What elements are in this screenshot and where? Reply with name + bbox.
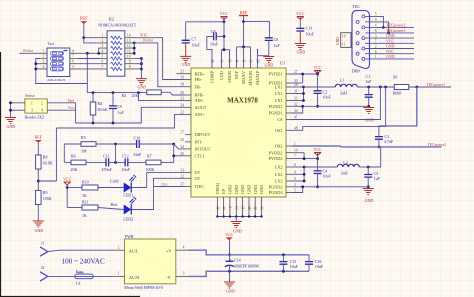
- svg-text:1: 1: [43, 49, 45, 53]
- wire switch common down to node A: [86, 53, 88, 92]
- svg-text:PGND2: PGND2: [269, 184, 283, 189]
- wire jog to R2 pin 3: [98, 48, 101, 53]
- pin 15 INT- stub: [185, 141, 191, 143]
- wire C5 to PGND2 ground: [367, 177, 369, 187]
- svg-text:PVDD2: PVDD2: [269, 150, 283, 155]
- svg-text:1A: 1A: [76, 281, 81, 286]
- wire R1 to TECpower1: [409, 86, 451, 88]
- pin 20 BFB- stub: [185, 94, 191, 96]
- svg-text:DB9: DB9: [352, 68, 360, 73]
- pin 27 PVDD1 stub: [286, 73, 292, 75]
- svg-text:105K: 105K: [43, 196, 52, 201]
- svg-text:5: 5: [102, 55, 104, 59]
- wire LED2 to OT pin 12: [131, 178, 185, 209]
- svg-text:42: 42: [253, 206, 257, 210]
- pin 21 BFB+ stub: [176, 73, 191, 75]
- wire C3 to TECpower2 row: [378, 139, 380, 147]
- capacitor C11 470nF: [86, 161, 106, 163]
- wire DB9 pin3 GND: [365, 37, 414, 39]
- pin 22 AIN+ stub: [185, 114, 191, 116]
- svg-text:36: 36: [215, 206, 219, 210]
- svg-text:2ms: 2ms: [161, 182, 168, 187]
- svg-text:Hot: Hot: [111, 202, 118, 207]
- wire header pin4 Vntc down to R4 C9 row: [47, 109, 75, 111]
- svg-text:1uF: 1uF: [374, 176, 381, 181]
- R2 element zigzag row 6: [111, 62, 123, 65]
- svg-text:TECpower2: TECpower2: [386, 22, 406, 27]
- power module PS1 PWR box: [125, 239, 176, 284]
- connector J3 Header 2X2 Sense: [25, 99, 47, 113]
- wire C14 to ground: [229, 265, 231, 271]
- switch element 1: [51, 51, 64, 55]
- svg-text:R6: R6: [71, 154, 76, 159]
- svg-text:1: 1: [118, 272, 120, 276]
- svg-text:FREQ: FREQ: [215, 182, 220, 194]
- wire C8 to ground / MAXIP pin 39: [268, 40, 270, 55]
- pin 9 LX2 stub: [286, 180, 292, 182]
- svg-text:VCC: VCC: [313, 65, 322, 70]
- svg-text:GND: GND: [265, 63, 274, 68]
- DIP switch S1 A6S-4102-H body: [47, 48, 70, 77]
- svg-text:INT-: INT-: [195, 140, 204, 145]
- wire header pins 1 3 to ground: [11, 103, 25, 117]
- svg-text:LX1: LX1: [275, 98, 283, 103]
- wire DB9 pin9 to pin8: [365, 22, 389, 33]
- wire R3 to BFB- pin 20: [161, 92, 185, 95]
- PWR pin 4: [176, 249, 188, 251]
- capacitor C1 1uF: [368, 87, 370, 95]
- svg-text:VCC: VCC: [225, 232, 234, 237]
- svg-text:7: 7: [102, 65, 104, 69]
- wire LX1 pins 28 31 33 tied: [292, 86, 304, 88]
- R2 element zigzag row 1: [111, 36, 123, 39]
- DB9 pin 8: [356, 31, 359, 34]
- svg-text:AOUT: AOUT: [195, 105, 207, 110]
- svg-text:470nF: 470nF: [102, 167, 113, 172]
- capacitor C15 10uF: [282, 255, 284, 262]
- resistor R11 1K: [82, 205, 98, 210]
- DB9 pin 1: [362, 57, 365, 60]
- svg-text:C8: C8: [274, 37, 279, 42]
- svg-text:VCC: VCC: [63, 177, 72, 182]
- svg-text:2: 2: [118, 246, 120, 250]
- svg-text:Vntc: Vntc: [68, 105, 76, 110]
- svg-text:PVDD1: PVDD1: [269, 72, 283, 77]
- svg-text:13: 13: [234, 206, 238, 210]
- wire TECpower2 to L2: [368, 147, 381, 167]
- svg-text:24: 24: [180, 103, 184, 107]
- svg-text:GND: GND: [247, 185, 252, 194]
- svg-text:DIFOUT: DIFOUT: [195, 132, 211, 137]
- ground below C13: [299, 31, 301, 44]
- wire 10shut to switch pin 1: [19, 52, 40, 54]
- svg-text:6: 6: [102, 60, 104, 64]
- svg-text:6: 6: [294, 163, 296, 167]
- wire REF port to REF bus and C8: [243, 16, 245, 22]
- svg-text:10nF: 10nF: [192, 43, 201, 48]
- wire R2 pin14 to FB+ (NTC net): [134, 38, 185, 80]
- R2 element zigzag row 5: [111, 57, 123, 60]
- svg-text:32: 32: [294, 102, 298, 106]
- pin 47 CS stub: [286, 119, 292, 121]
- svg-text:3: 3: [294, 183, 296, 187]
- capacitor C5 1uF: [367, 167, 369, 175]
- pin 5 PGND2 stub: [286, 192, 292, 194]
- capacitor C6: [214, 32, 217, 40]
- svg-text:R1: R1: [393, 75, 398, 80]
- svg-text:3: 3: [43, 60, 45, 64]
- wire PGND1 pins 32 34 to ground: [292, 105, 369, 107]
- ground below R2: [136, 79, 147, 85]
- ground below C1: [363, 108, 374, 114]
- svg-text:15: 15: [180, 138, 184, 142]
- pin 18 FB- stub: [185, 86, 191, 88]
- wire R7 to CTLI vertical: [161, 161, 174, 163]
- pin 33 LX1 stub: [286, 100, 292, 102]
- wire PVDD2 pins 10 7 tied: [292, 152, 304, 154]
- svg-text:REF: REF: [234, 70, 239, 78]
- DB9 pin 2: [362, 47, 365, 50]
- svg-text:PGND1: PGND1: [269, 104, 283, 109]
- wire CS pin 47 sense: [292, 87, 380, 120]
- wire DB9 pin6 NTC: [365, 53, 414, 55]
- svg-text:OT: OT: [195, 176, 201, 181]
- svg-text:20K: 20K: [132, 93, 139, 98]
- svg-text:J2: J2: [41, 265, 45, 270]
- pin 24 AOUT stub: [185, 106, 191, 108]
- svg-text:Tset: Tset: [68, 98, 75, 103]
- svg-text:R068: R068: [393, 91, 402, 96]
- svg-text:AC/N: AC/N: [129, 275, 140, 280]
- svg-text:9: 9: [129, 60, 131, 64]
- ground below R9: [37, 205, 39, 221]
- pin 13 GND stub: [235, 197, 237, 217]
- wire REF to R2 pins 1 2: [83, 24, 85, 38]
- ground below C14: [224, 282, 235, 288]
- svg-text:28: 28: [294, 83, 298, 87]
- wire VCC to R10 R11: [66, 185, 68, 208]
- svg-text:REF: REF: [35, 135, 43, 140]
- svg-text:PWR: PWR: [125, 234, 134, 239]
- DB9 mounting pins 10 11 box: [341, 33, 351, 48]
- svg-text:1K: 1K: [82, 193, 87, 198]
- svg-text:100K: 100K: [146, 167, 155, 172]
- svg-text:LX2: LX2: [275, 179, 283, 184]
- wire C6 right plate to VDD line: [216, 35, 224, 37]
- wire -V row: [188, 271, 309, 276]
- wire AIN- pin 23: [139, 93, 186, 101]
- op-amp controller U1 MAX1978 chip body: [191, 68, 286, 197]
- svg-text:14: 14: [127, 34, 131, 38]
- svg-text:OS1: OS1: [275, 128, 283, 133]
- svg-text:A6S-4102-H: A6S-4102-H: [47, 78, 65, 82]
- svg-text:+V: +V: [166, 249, 172, 254]
- svg-text:GND: GND: [35, 228, 44, 233]
- power port VCC top: [221, 17, 228, 20]
- capacitor C8: [265, 38, 273, 41]
- svg-text:VDD: VDD: [219, 71, 224, 80]
- resistor network R2 NOMCA14031002AT5 body: [107, 31, 125, 76]
- wire OS1 pin 48 sense: [292, 87, 386, 130]
- svg-text:ITEC: ITEC: [195, 184, 205, 189]
- svg-text:C12: C12: [122, 154, 129, 159]
- pin 42 GND stub: [254, 197, 256, 217]
- pin 12 OT stub: [185, 177, 191, 179]
- LED2: [98, 208, 124, 210]
- svg-text:1M: 1M: [81, 149, 87, 154]
- svg-text:R3: R3: [122, 93, 127, 98]
- svg-text:100 ~ 240VAC: 100 ~ 240VAC: [62, 257, 105, 265]
- wire OS2 pin 1 to TECpower2: [292, 145, 442, 148]
- svg-text:U1: U1: [280, 61, 285, 66]
- svg-text:SHDN: SHDN: [227, 71, 232, 83]
- svg-text:GND: GND: [234, 185, 239, 194]
- wire AIN+ pin 22 route: [56, 115, 185, 128]
- svg-text:MAXV: MAXV: [241, 70, 246, 84]
- svg-text:10shut: 10shut: [142, 38, 154, 43]
- svg-text:3uH: 3uH: [340, 91, 347, 96]
- ground symbol below chip: [231, 222, 242, 228]
- wire DB9 pin5 to pin4: [365, 16, 383, 27]
- svg-text:43: 43: [260, 206, 264, 210]
- DB9 pin 3: [362, 37, 365, 40]
- svg-text:AIN+: AIN+: [195, 112, 206, 117]
- svg-text:L1: L1: [340, 78, 345, 83]
- svg-text:5: 5: [294, 189, 296, 193]
- svg-text:PGND1: PGND1: [269, 111, 283, 116]
- switch element 3: [51, 62, 64, 66]
- capacitor C7: [185, 22, 187, 41]
- sheet border: [1, 52, 141, 297]
- svg-text:VCC: VCC: [220, 11, 229, 16]
- power port VCC left: [64, 182, 71, 185]
- svg-text:69.8K: 69.8K: [43, 161, 53, 166]
- wire FREQ EP GND pins to ground: [235, 217, 237, 221]
- capacitor C2 10uF: [317, 74, 319, 91]
- wire LED1 to UT pin 13: [131, 173, 185, 188]
- resistor R7 100K: [128, 161, 146, 163]
- svg-text:R10: R10: [82, 180, 89, 185]
- svg-text:L2: L2: [343, 160, 348, 165]
- svg-text:13: 13: [180, 169, 184, 173]
- svg-text:INTOUT: INTOUT: [195, 147, 211, 152]
- svg-text:LX1: LX1: [275, 85, 283, 90]
- wire PVDD1 pins 27 30 tied: [292, 73, 318, 75]
- svg-text:MAX1978: MAX1978: [227, 96, 258, 104]
- svg-text:TECpower1: TECpower1: [427, 83, 446, 87]
- svg-text:1uF: 1uF: [365, 79, 372, 84]
- svg-text:TEC: TEC: [352, 4, 360, 9]
- capacitor C3 4.7uF: [378, 126, 380, 137]
- svg-text:10: 10: [127, 55, 131, 59]
- wire TECpower1 to C3: [379, 87, 417, 126]
- svg-text:GND: GND: [259, 185, 264, 194]
- svg-text:47: 47: [294, 116, 298, 120]
- wire C4 to PGND2 row: [317, 174, 319, 187]
- svg-text:27: 27: [294, 70, 298, 74]
- svg-text:2: 2: [228, 206, 232, 208]
- wire switch pins 2 3 4 common: [36, 59, 88, 84]
- wire VCC to R11: [67, 207, 82, 209]
- wire DB9 pin7 VCC: [365, 42, 414, 44]
- svg-text:UT: UT: [195, 170, 201, 175]
- svg-text:GND: GND: [6, 124, 15, 129]
- svg-text:10uF: 10uF: [323, 174, 332, 179]
- svg-text:COMP: COMP: [210, 70, 215, 83]
- ground below C7: [185, 43, 187, 57]
- svg-text:3: 3: [31, 109, 33, 113]
- svg-text:14: 14: [180, 145, 184, 149]
- svg-text:R4: R4: [98, 101, 103, 106]
- power port REF top: [239, 15, 248, 17]
- svg-text:LX2: LX2: [275, 172, 283, 177]
- svg-text:Header 2X2: Header 2X2: [25, 114, 44, 119]
- wire LX2 to L2: [304, 166, 337, 168]
- svg-text:VCC: VCC: [296, 11, 305, 16]
- svg-text:7: 7: [72, 55, 74, 59]
- pin 23 AIN- stub: [185, 100, 191, 102]
- svg-text:GND: GND: [336, 37, 340, 45]
- LED1: [98, 187, 124, 189]
- wire comp loop top left: [64, 143, 81, 145]
- svg-text:LED1: LED1: [123, 193, 133, 198]
- svg-text:C10: C10: [134, 136, 141, 141]
- svg-text:80.6K: 80.6K: [98, 107, 108, 112]
- svg-text:REF: REF: [240, 10, 248, 15]
- svg-text:GND: GND: [365, 198, 374, 203]
- svg-text:12: 12: [127, 44, 131, 48]
- power port VCC lower right: [314, 153, 321, 156]
- svg-text:10nF: 10nF: [122, 167, 131, 172]
- pin 2 GND stub: [229, 197, 231, 217]
- svg-text:NOMCA14031002AT5: NOMCA14031002AT5: [98, 23, 136, 28]
- svg-text:13: 13: [127, 39, 131, 43]
- pin 10 PVDD2 stub: [286, 152, 292, 154]
- capacitor C4 10uF: [317, 159, 319, 171]
- power port VCC right: [314, 71, 321, 74]
- svg-text:10shut: 10shut: [22, 48, 34, 53]
- svg-text:37: 37: [180, 183, 184, 187]
- svg-text:C14: C14: [234, 258, 241, 263]
- svg-text:10: 10: [294, 149, 298, 153]
- pin 25 GND stub: [248, 197, 250, 217]
- svg-text:17: 17: [180, 131, 184, 135]
- svg-text:8: 8: [129, 65, 131, 69]
- svg-text:GND: GND: [240, 185, 245, 194]
- REF bus joining pins 46 41 40: [237, 46, 251, 48]
- svg-text:21: 21: [241, 206, 245, 210]
- svg-text:48: 48: [294, 126, 298, 130]
- wire fuse to AC/N: [93, 275, 112, 277]
- svg-text:LX1: LX1: [275, 91, 283, 96]
- svg-text:MAXIP: MAXIP: [255, 70, 260, 84]
- svg-text:2: 2: [43, 55, 45, 59]
- svg-text:Tact: Tact: [48, 41, 56, 46]
- svg-text:AIN-: AIN-: [195, 98, 205, 103]
- svg-text:19: 19: [180, 76, 184, 80]
- svg-text:CTLI: CTLI: [195, 153, 205, 158]
- wire DB9 pin8 TECpower1: [365, 32, 414, 34]
- svg-text:49: 49: [222, 206, 226, 210]
- pin 21 GND stub: [242, 197, 244, 217]
- wire C1 to PGND ground: [368, 97, 370, 106]
- svg-text:10uF: 10uF: [315, 264, 324, 269]
- wire C7 to VCC: [186, 21, 224, 23]
- svg-text:R7: R7: [147, 154, 152, 159]
- svg-text:R11: R11: [82, 200, 89, 205]
- inductor L2 3uH: [337, 164, 359, 167]
- svg-text:6: 6: [72, 60, 74, 64]
- svg-text:10uF: 10uF: [290, 264, 299, 269]
- wire LX1 to L1: [304, 86, 336, 88]
- R2 element zigzag row 7: [111, 67, 123, 70]
- wire C11-C12 mid tap up to R5 row: [115, 144, 117, 162]
- wire switch pin6 to R2 pin6: [78, 63, 100, 65]
- svg-text:4: 4: [43, 65, 45, 69]
- ground below R9: [33, 221, 44, 227]
- svg-text:33nF: 33nF: [133, 152, 142, 157]
- switch element 2: [51, 57, 64, 61]
- svg-text:Mean Well MPM-20-5: Mean Well MPM-20-5: [124, 285, 163, 290]
- pin 32 PGND1 stub: [286, 105, 292, 107]
- svg-text:Sense: Sense: [25, 93, 35, 98]
- capacitor C14 16SEPF1000M polarized: [229, 255, 231, 261]
- resistor R3 20K: [147, 90, 162, 95]
- wire C11 to C12: [109, 161, 126, 163]
- pin 4 LX2 stub: [286, 173, 292, 175]
- svg-text:34: 34: [294, 109, 298, 113]
- svg-text:GND: GND: [182, 62, 191, 67]
- wire SHDN pin 11 to VDD line: [229, 50, 231, 68]
- svg-text:11: 11: [342, 43, 346, 47]
- capacitor C13: [299, 17, 301, 29]
- pin 48 OS1 stub: [286, 129, 292, 131]
- wire REF pin stub: [236, 47, 238, 68]
- svg-text:BFB-: BFB-: [195, 93, 205, 98]
- svg-text:C9: C9: [118, 104, 123, 109]
- svg-text:BFB+: BFB+: [195, 71, 206, 76]
- svg-text:3: 3: [183, 272, 185, 276]
- wire J1 to AC/L: [48, 250, 113, 251]
- resistor R9 105K: [36, 191, 42, 205]
- svg-text:R8: R8: [43, 155, 48, 160]
- power port VCC above C13: [297, 17, 304, 20]
- svg-text:R5: R5: [81, 135, 86, 140]
- wire CTLI pin 45: [173, 144, 175, 162]
- wire LX2 pins 6 4 9 tied: [292, 166, 304, 168]
- svg-text:3: 3: [102, 44, 104, 48]
- svg-text:11: 11: [127, 49, 131, 53]
- svg-text:4: 4: [102, 49, 104, 53]
- svg-text:25: 25: [247, 206, 251, 210]
- svg-text:R9: R9: [43, 190, 48, 195]
- svg-text:LED2: LED2: [123, 217, 133, 222]
- svg-text:TECpower2: TECpower2: [428, 143, 447, 147]
- pin 1 OS2 stub: [286, 145, 292, 147]
- pin 43 GND stub: [261, 197, 263, 217]
- svg-text:PGND2: PGND2: [269, 190, 283, 195]
- pin 49 EP stub: [223, 197, 225, 217]
- capacitor C9 1uF: [112, 93, 114, 106]
- pin 17 DIFOUT stub: [185, 134, 191, 136]
- wire +V row: [188, 250, 309, 255]
- pin 36 FREQ stub: [216, 197, 218, 217]
- svg-text:2: 2: [41, 101, 43, 105]
- R2 element zigzag row 4: [111, 52, 123, 55]
- svg-text:10uF: 10uF: [210, 42, 219, 47]
- svg-text:C13: C13: [306, 26, 313, 31]
- capacitor C16 10uF: [308, 255, 310, 262]
